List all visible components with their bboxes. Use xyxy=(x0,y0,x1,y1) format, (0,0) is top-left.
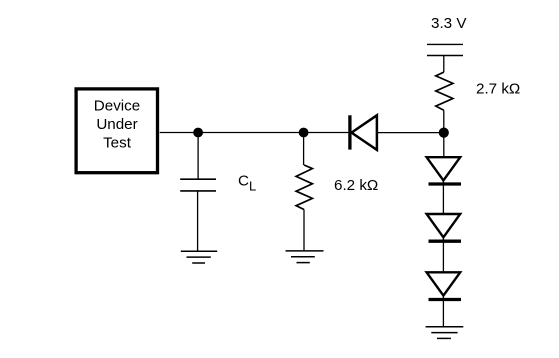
svg-text:C: C xyxy=(238,173,249,190)
diode D2 triangle xyxy=(427,157,461,180)
ground under capacitor xyxy=(181,251,217,263)
svg-text:6.2 kΩ: 6.2 kΩ xyxy=(334,177,378,194)
ground under resistor R2 xyxy=(286,251,324,263)
resistor R1 2.7k zigzag xyxy=(436,72,453,110)
wire node B to resistor R2 xyxy=(303,133,305,166)
resistor R2 6.2k zigzag xyxy=(296,165,312,210)
ground under diode chain xyxy=(426,327,464,339)
wire DUT output to diode cathode xyxy=(160,132,349,134)
capacitor CL bottom plate xyxy=(180,190,216,192)
wire power rail to resistor R1 xyxy=(443,56,445,73)
label CL xyxy=(238,173,256,194)
wire diode anode to node C xyxy=(377,132,444,134)
diode D3 triangle xyxy=(427,214,461,237)
diode D1 triangle xyxy=(352,115,377,150)
wire node A to capacitor top plate xyxy=(197,133,199,180)
node C junction xyxy=(439,128,449,138)
diode D4 cathode bar xyxy=(429,298,462,301)
label Device Under Test xyxy=(94,98,140,152)
svg-text:2.7 kΩ: 2.7 kΩ xyxy=(476,80,520,97)
wire capacitor bottom plate to ground xyxy=(197,191,199,251)
svg-text:Under: Under xyxy=(96,116,137,133)
wire diode D3 to diode D4 xyxy=(442,237,444,271)
svg-text:Device: Device xyxy=(94,98,140,115)
power rail 3.3V double bar xyxy=(427,44,463,55)
node A junction xyxy=(193,128,203,138)
node B junction xyxy=(299,128,309,138)
svg-text:L: L xyxy=(249,179,256,194)
wire resistor R2 to ground xyxy=(303,210,305,251)
wire diode D4 to ground xyxy=(442,296,444,327)
capacitor CL top plate xyxy=(180,178,216,180)
Device Under Test box xyxy=(76,89,157,173)
diode D2 cathode bar xyxy=(429,182,462,185)
diode D3 cathode bar xyxy=(429,240,462,243)
svg-text:Test: Test xyxy=(103,135,132,152)
wire resistor R1 through node C to diode D2 xyxy=(443,110,445,156)
diode D1 cathode bar xyxy=(348,115,351,149)
svg-text:3.3 V: 3.3 V xyxy=(431,15,467,32)
diode D4 triangle xyxy=(427,272,461,295)
wire diode D2 to diode D3 xyxy=(442,181,444,214)
